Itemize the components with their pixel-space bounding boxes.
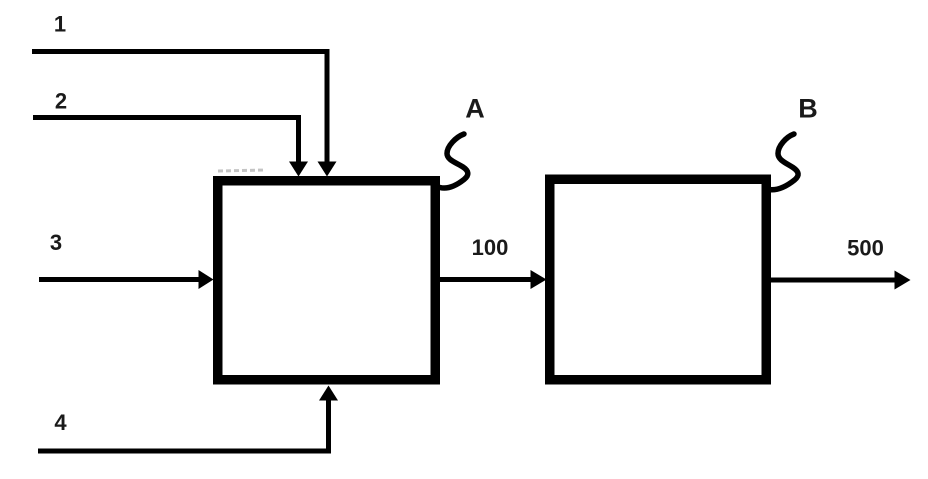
svg-text:A: A [465,94,485,124]
wire stream 4 [38,386,338,452]
wire stream 3 [39,270,214,289]
svg-text:500: 500 [847,236,884,261]
wire stream 100 (A to B) [440,270,547,289]
wire stream 500 (output) [771,271,911,290]
svg-text:B: B [798,94,818,124]
scan artifact above block A [218,170,266,171]
svg-text:2: 2 [55,89,67,114]
svg-text:3: 3 [50,230,62,255]
lead line squiggle A [440,134,468,188]
svg-text:100: 100 [472,235,509,260]
svg-text:4: 4 [54,410,67,435]
wire stream 2 [33,118,308,177]
svg-text:1: 1 [54,12,66,37]
block B (process box) [550,179,767,380]
lead line squiggle B [769,134,799,190]
wire stream 1 [32,52,337,177]
block A (process box) [218,181,436,380]
